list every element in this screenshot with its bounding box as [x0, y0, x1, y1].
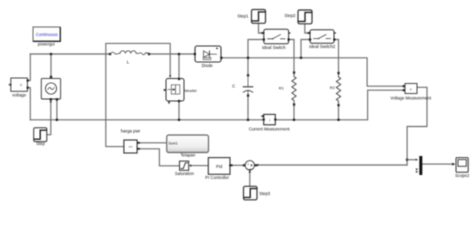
Step2 block	[285, 10, 312, 24]
svg-text:Saturation: Saturation	[175, 171, 195, 176]
wire mux output to scope	[422, 163, 452, 165]
wire voltage measurement output down and around	[407, 87, 427, 165]
wire voltage measurement minus down to bottom bus	[28, 88, 31, 120]
svg-text:R2: R2	[330, 85, 335, 90]
svg-text:Mosfet: Mosfet	[185, 88, 198, 93]
svg-text:Tetapan: Tetapan	[180, 153, 196, 158]
wire elbow down to voltage measurement plus	[28, 54, 31, 80]
svg-text:Diode: Diode	[202, 63, 214, 68]
svg-text:Scope2: Scope2	[455, 173, 470, 178]
powergui block	[33, 27, 60, 47]
svg-text:Step: Step	[36, 141, 45, 146]
node junction source on bus	[178, 119, 181, 122]
svg-text:PId: PId	[216, 164, 223, 169]
voltage measurement block (flipped, label voltage)	[8, 78, 29, 97]
svg-text:Continuous: Continuous	[36, 32, 58, 37]
svg-text:voltage: voltage	[12, 92, 26, 97]
mux	[416, 156, 422, 175]
inductor L	[109, 51, 150, 65]
svg-text:+: +	[247, 162, 249, 166]
Diode block	[194, 46, 223, 68]
svg-text:Step2: Step2	[285, 13, 297, 18]
wire top rail from source elbow to diode anode	[30, 53, 110, 55]
node junction R1 bus	[293, 119, 296, 122]
node junction scope feed	[406, 158, 409, 161]
wire Ideal Switch2 port2 down to resistor R2	[334, 40, 338, 74]
wire bottom bus	[30, 119, 263, 121]
AC controlled voltage source	[41, 76, 60, 101]
Step1 block	[237, 10, 265, 24]
wire output rail from diode cathode to voltage measurement plus	[222, 58, 403, 86]
node junction rail capacitor	[247, 57, 250, 60]
wire AC source plus up to top rail	[50, 54, 52, 77]
Ideal Switch2 block	[309, 30, 337, 49]
node junction AC plus	[50, 53, 53, 56]
wire mosfet source to bus	[178, 102, 180, 120]
wire capacitor bottom to bus	[247, 96, 249, 120]
wire sum circle out to PI controller	[233, 164, 245, 166]
node junction rail switch2	[300, 57, 303, 60]
wire saturation out to comparator input2	[140, 149, 180, 166]
wire constant to comparator input1	[140, 142, 167, 144]
svg-text:C: C	[232, 84, 235, 89]
wire resistor R2 bottom to bus	[338, 106, 340, 120]
svg-text:Step3: Step3	[259, 191, 271, 196]
wire mosfet drain to top rail	[178, 54, 180, 78]
wire Step2 to switch2 gate	[305, 24, 309, 33]
capacitor C	[232, 74, 253, 97]
Voltage Measurement block	[390, 84, 432, 101]
Ideal Switch block	[262, 29, 291, 50]
wire voltage feedback long line into sum circle	[257, 164, 407, 166]
node junction capacitor bus	[247, 119, 250, 122]
svg-text:Ideal Switch2: Ideal Switch2	[309, 44, 336, 49]
Step3 block	[244, 186, 271, 200]
svg-text:Step1: Step1	[237, 13, 249, 18]
PI Controller block	[205, 158, 233, 180]
wire AC source minus down to bus	[56, 100, 58, 120]
wire Step block to AC source control input	[47, 102, 51, 135]
wire PWM gate signal: comparator out up and over to mosfet gate	[106, 43, 170, 146]
Scope2 block	[455, 158, 470, 178]
node junction drain	[178, 53, 181, 56]
svg-text:harga pwr: harga pwr	[121, 128, 141, 133]
Saturation block	[175, 161, 195, 176]
Tetapan constant block	[167, 135, 209, 158]
wire Ideal Switch1 port1 down through rail to capacitor	[248, 40, 264, 76]
node junction R2 bus	[337, 119, 340, 122]
svg-text:L: L	[127, 60, 130, 65]
sum circle	[245, 161, 254, 171]
Current Measurement block	[249, 114, 291, 131]
svg-text:>=: >=	[129, 145, 133, 149]
Mosfet block	[164, 78, 198, 104]
svg-text:R1: R1	[279, 85, 284, 90]
resistor R1	[279, 71, 296, 105]
svg-text:Current Measurement: Current Measurement	[249, 127, 291, 132]
wire Ideal Switch1 port2 down to resistor R1	[289, 40, 294, 73]
svg-text:Ideal Switch: Ideal Switch	[262, 45, 286, 50]
svg-text:PI Controller: PI Controller	[205, 175, 229, 180]
svg-text:Voltage Measurement: Voltage Measurement	[390, 95, 432, 100]
wire Ideal Switch2 port1 to rail	[301, 40, 310, 58]
wire PI controller out to saturation	[191, 165, 208, 167]
svg-text:powergui: powergui	[38, 42, 55, 47]
svg-text:v: v	[20, 83, 22, 87]
wire resistor R1 bottom to bus	[293, 105, 295, 120]
node junction AC minus on bus	[56, 119, 59, 122]
svg-text:Sum1: Sum1	[168, 141, 177, 145]
resistor R2	[330, 72, 341, 106]
Step block bottom-left	[34, 128, 47, 146]
comparator block (PWM)	[121, 128, 141, 153]
wire Step3 up to sum circle	[249, 172, 251, 186]
wire Step1 to switch1 gate	[259, 23, 263, 33]
wire to mux input1	[407, 159, 416, 161]
